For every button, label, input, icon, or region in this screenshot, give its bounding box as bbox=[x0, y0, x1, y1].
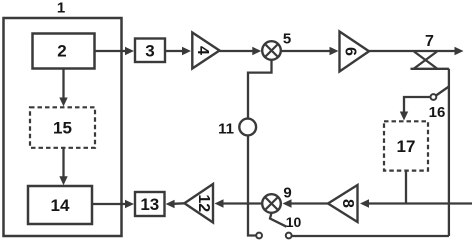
svg-text:14: 14 bbox=[51, 196, 70, 215]
arrowhead into amp6 bbox=[330, 47, 339, 55]
switch 10 left terminal bbox=[256, 233, 262, 239]
svg-text:4: 4 bbox=[194, 46, 211, 55]
dashed box 15 bbox=[30, 107, 95, 148]
switch 16 terminal circle bbox=[431, 94, 437, 100]
op-amp U8 amplifier 8 bbox=[328, 185, 358, 222]
op-amp U12 amplifier 12 bbox=[184, 184, 213, 223]
arrowhead into box15 bbox=[59, 98, 67, 107]
box 13 bbox=[135, 192, 165, 216]
dashed box 17 bbox=[384, 121, 428, 170]
switch 10 arm from mixer9 bbox=[270, 213, 287, 227]
mixer 5 bbox=[262, 41, 281, 60]
svg-text:6: 6 bbox=[342, 47, 359, 56]
wire circle11 down to terminal bbox=[248, 135, 256, 235]
svg-text:8: 8 bbox=[339, 199, 356, 208]
arrowhead into mixer5 bbox=[252, 47, 261, 55]
svg-text:11: 11 bbox=[218, 121, 234, 138]
svg-text:7: 7 bbox=[425, 33, 434, 50]
coupler 7 cross bbox=[414, 52, 437, 69]
arrowhead into mixer9 bbox=[283, 199, 292, 207]
op-amp U4 amplifier 4 bbox=[192, 33, 219, 69]
arrowhead into box17 bbox=[400, 112, 408, 121]
arrowhead into amp8 bbox=[360, 199, 369, 207]
wire switch16 to box17 bbox=[404, 97, 431, 113]
coupler 7 bottom bar bbox=[411, 68, 449, 70]
wire mixer5 to amp6 bbox=[281, 50, 331, 52]
arrowhead into box13 right bbox=[166, 200, 175, 208]
svg-text:10: 10 bbox=[286, 214, 302, 230]
wire box3 to amp4 bbox=[165, 50, 184, 52]
wire box14 to box13 bbox=[92, 203, 126, 205]
wire amp8 to mixer9 bbox=[290, 202, 328, 204]
arrowhead into amp4 bbox=[182, 47, 191, 55]
node output arrow 7 bbox=[455, 47, 464, 55]
wire box15 down to box14 bbox=[62, 148, 64, 179]
wire amp6 to output arrow bbox=[369, 50, 456, 52]
svg-text:13: 13 bbox=[140, 195, 159, 214]
svg-text:3: 3 bbox=[145, 41, 154, 60]
svg-text:16: 16 bbox=[429, 104, 446, 121]
box 2 bbox=[33, 34, 95, 69]
arrowhead into box14 bbox=[59, 176, 67, 185]
svg-text:5: 5 bbox=[283, 31, 291, 48]
wire box2 to box3 bbox=[95, 50, 127, 52]
arrowhead into box3 bbox=[125, 47, 134, 55]
svg-text:9: 9 bbox=[283, 185, 291, 202]
switch 16 arm bbox=[436, 87, 449, 96]
svg-text:2: 2 bbox=[57, 42, 66, 61]
arrowhead into amp12 bbox=[215, 199, 224, 207]
op-amp U6 amplifier 6 bbox=[340, 32, 370, 72]
mixer 9 bbox=[262, 194, 281, 213]
wire mixer9 to amp12 bbox=[222, 202, 262, 204]
wire amp4 to mixer5 bbox=[220, 50, 254, 52]
svg-text:1: 1 bbox=[57, 0, 65, 17]
wire box17 to amp8 line bbox=[405, 171, 407, 204]
wire box2 down to box15 bbox=[62, 69, 64, 100]
svg-text:15: 15 bbox=[53, 119, 72, 138]
arrowhead into box13 left bbox=[125, 200, 134, 208]
capacitor circle 11 bbox=[239, 119, 256, 136]
svg-text:12: 12 bbox=[195, 194, 212, 212]
wire amp12 to box13 bbox=[173, 202, 184, 205]
wire input from right edge to amp8 bbox=[367, 202, 472, 204]
box 14 bbox=[28, 186, 92, 224]
svg-text:17: 17 bbox=[397, 137, 416, 156]
wire bottom return to terminal bbox=[292, 235, 449, 237]
wire mixer5 down jog bbox=[248, 60, 272, 119]
box 3 bbox=[135, 39, 165, 63]
outer box 1 bbox=[4, 18, 122, 236]
switch 10 right terminal bbox=[286, 233, 292, 239]
wire vertical rail from coupler7 bbox=[448, 69, 450, 236]
